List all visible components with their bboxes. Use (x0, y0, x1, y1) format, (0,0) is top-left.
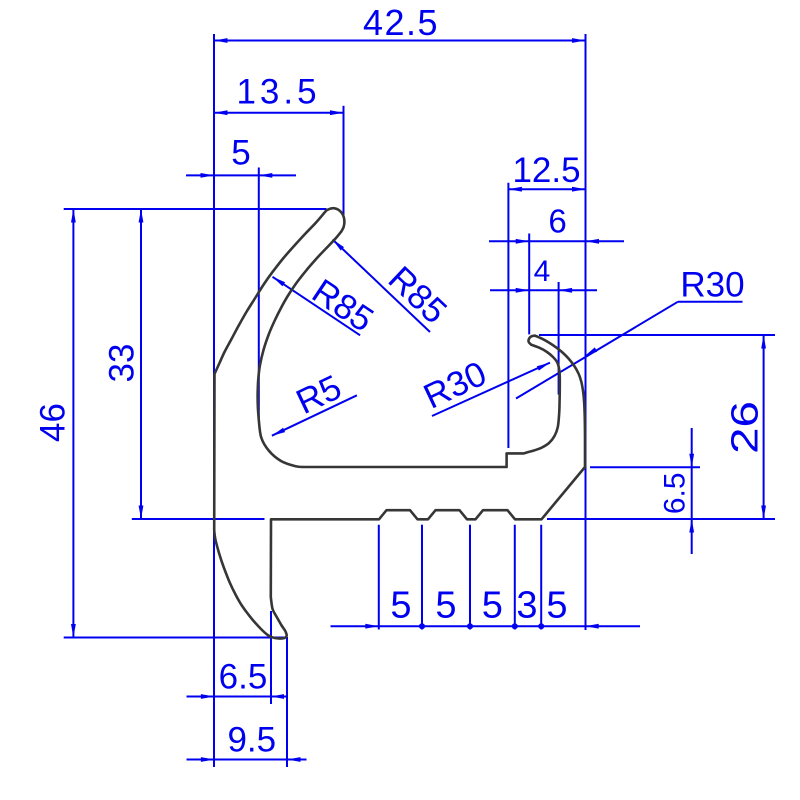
chain junction dot x=541.2 (538, 623, 544, 629)
dimension line 33 (140, 209, 142, 519)
arrowhead chain right (585, 624, 599, 629)
extension line x=271 (6.5 bottom-left right) (270, 611, 272, 704)
svg-text:R30: R30 (418, 354, 493, 417)
arrowhead 6 right (586, 239, 600, 244)
extension line y=335 (hook tip top) (539, 334, 775, 336)
svg-text:12.5: 12.5 (512, 151, 580, 190)
arrowhead 5 top left (201, 173, 215, 178)
svg-text:13.5: 13.5 (236, 73, 320, 112)
svg-text:9.5: 9.5 (227, 721, 276, 760)
arrowhead 12.5 left (508, 187, 522, 192)
arrowhead 4 right (559, 288, 573, 293)
svg-text:6.5: 6.5 (219, 658, 268, 697)
extension line y=209 (profile top datum) (64, 208, 327, 210)
dimension line 5 top (186, 174, 296, 176)
extension line x=422 (bottom chain) (421, 525, 423, 630)
chain junction dot x=514.8 (512, 623, 518, 629)
svg-text:R85: R85 (305, 272, 380, 340)
leader R30 center (432, 363, 550, 416)
dimension line 46 (72, 209, 74, 638)
arrowhead leader R85 upper (333, 240, 344, 251)
extension line y=467.2 (6.5 right top) (590, 466, 700, 468)
arrowhead 33 top (139, 209, 144, 223)
leader R30 top-right underline (678, 301, 743, 303)
svg-text:5: 5 (390, 585, 411, 627)
arrowhead 42.5 left (214, 38, 228, 43)
dimension line 6 (489, 240, 624, 242)
extension line y=519 left (33 bottom) (132, 518, 265, 520)
arrowhead 42.5 right (572, 38, 586, 43)
extension line left x=214 (42.5/13.5/5/6.5/9.5 datum) (213, 34, 215, 767)
profile outline of extrusion section (214, 208, 585, 638)
arrowhead leader R30 center (537, 363, 550, 371)
arrowhead chain left (365, 624, 379, 629)
svg-text:33: 33 (103, 344, 142, 383)
arrowhead 6 left (516, 239, 530, 244)
leader R85 lower (273, 277, 361, 336)
arrowhead leader R30 top-right (584, 347, 597, 356)
extension line x=508.4 (12.5 left) (507, 183, 509, 448)
arrowhead leader R5 (272, 428, 285, 436)
arrowhead 5 top right (259, 173, 273, 178)
arrowhead 12.5 right (572, 187, 586, 192)
dimension line 42.5 (214, 40, 586, 42)
dimension line 13.5 (214, 112, 344, 114)
extension line right x=585.5 (42.5/12.5/6 datum) (585, 34, 587, 630)
arrowhead 26 top (761, 335, 766, 349)
svg-text:26: 26 (724, 401, 766, 454)
leader R30 top-right diagonal (516, 302, 678, 399)
extension line y=637.5 (profile bottom datum) (64, 637, 287, 639)
arrowhead 13.5 right (330, 110, 344, 115)
extension line y=519 right (body bottom) (547, 518, 775, 520)
svg-text:5: 5 (546, 585, 567, 627)
arrowhead 26 bottom (761, 506, 766, 520)
svg-text:3: 3 (516, 585, 537, 627)
arrowhead 9.5 left (201, 757, 215, 762)
extension line x=529.2 (6/4 left) (528, 234, 530, 335)
arrowhead 4 left (516, 288, 530, 293)
arrowhead 6.5 bottom-left (201, 694, 215, 699)
dimension line 9.5 (187, 759, 307, 761)
dimension line 6.5 bottom-left (187, 696, 288, 698)
chain junction dot x=422 (419, 623, 425, 629)
svg-text:5: 5 (231, 134, 250, 173)
svg-text:46: 46 (34, 403, 73, 442)
arrowhead 9.5 right (287, 757, 301, 762)
arrowhead leader R85 lower (273, 277, 286, 287)
svg-text:6.5: 6.5 (659, 472, 692, 514)
arrowhead 6.5 right bottom (689, 519, 694, 533)
extension line x=541.2 (bottom chain) (540, 525, 542, 630)
extension line x=287 (9.5 right) (286, 637, 288, 767)
extension line x=514.8 (bottom chain) (514, 525, 516, 630)
dimension line 26 (763, 335, 765, 519)
dimension line 6.5 right (691, 428, 693, 554)
arrowhead 46 top (71, 209, 76, 223)
arrowhead 33 bottom (139, 506, 144, 520)
svg-text:5: 5 (435, 585, 456, 627)
svg-text:4: 4 (534, 255, 551, 288)
svg-text:R30: R30 (680, 266, 744, 305)
chain junction dot x=470 (467, 623, 473, 629)
svg-text:5: 5 (482, 585, 503, 627)
leader R85 upper (333, 240, 430, 333)
svg-text:6: 6 (548, 203, 566, 240)
extension line x=343.5 (13.5 right) (343, 106, 345, 217)
extension line x=470 (bottom chain) (469, 525, 471, 630)
dimension line 4 (490, 289, 597, 291)
arrowhead 13.5 left (214, 110, 228, 115)
svg-text:R85: R85 (381, 259, 454, 331)
arrowhead 6.5 right top (689, 454, 694, 468)
extension line x=378.8 (bottom chain) (378, 525, 380, 630)
leader R5 (272, 395, 357, 435)
svg-text:42.5: 42.5 (363, 2, 439, 43)
dimension line bottom chain 5/5/5/3/5 (331, 625, 641, 627)
svg-text:R5: R5 (290, 368, 347, 422)
arrowhead 46 bottom (71, 624, 76, 638)
extension line x=558.6 (4 right) (558, 282, 560, 395)
extension line x=258.8 (5 right) (258, 168, 260, 421)
arrowhead 6.5 bottom-right (271, 694, 285, 699)
dimension line 12.5 (508, 188, 585, 190)
